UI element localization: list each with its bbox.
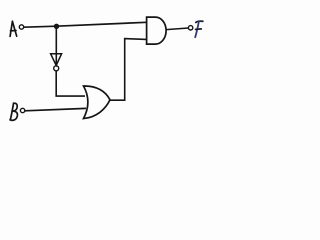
node B label: [10, 103, 17, 120]
terminal B: [20, 108, 24, 112]
wire inverter to OR gate: [56, 71, 85, 96]
wire B to OR gate: [25, 108, 86, 110]
wire AND output: [166, 28, 188, 30]
junction dot: [54, 24, 59, 29]
terminal F: [188, 26, 192, 30]
AND gate U3: [147, 17, 166, 44]
wire A to AND gate: [24, 22, 147, 27]
node F label: [195, 21, 203, 37]
inverter U1 triangle: [51, 54, 62, 66]
wire junction to inverter: [55, 26, 57, 65]
inverter bubble: [54, 66, 59, 71]
wire OR output to AND input: [110, 39, 147, 101]
terminal A: [19, 25, 23, 29]
OR gate U2: [84, 86, 111, 119]
node A label: [10, 21, 17, 36]
